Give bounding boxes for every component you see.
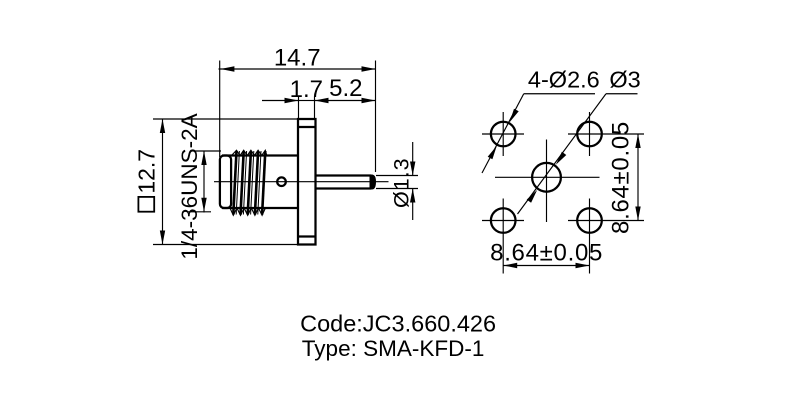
svg-text:14.7: 14.7 (274, 45, 321, 72)
svg-text:Type: SMA-KFD-1: Type: SMA-KFD-1 (302, 336, 485, 361)
svg-text:5.2: 5.2 (329, 75, 362, 102)
top-left mounting hole (482, 112, 524, 156)
dimension 14.7 (219, 45, 376, 173)
bottom-left mounting hole (482, 199, 524, 274)
thread crest zigzag top (232, 150, 267, 155)
bottom-right mounting hole (568, 199, 644, 274)
connector front face (220, 156, 231, 209)
thread flank stripes (233, 151, 265, 215)
dimension 8.64 right (607, 121, 640, 234)
leader dia3 (518, 67, 641, 215)
svg-text:12.7: 12.7 (134, 149, 160, 194)
svg-text:Ø3: Ø3 (609, 67, 640, 93)
svg-text:Code:JC3.660.426: Code:JC3.660.426 (300, 310, 496, 336)
flange top step (298, 126, 316, 128)
thread crest zigzag bottom (230, 208, 265, 215)
pin tip (370, 175, 377, 190)
center hole (495, 140, 600, 223)
flange (298, 119, 316, 245)
svg-text:1.7: 1.7 (290, 76, 323, 103)
svg-text:1/4-36UNS-2A: 1/4-36UNS-2A (177, 113, 202, 259)
svg-text:Ø1.3: Ø1.3 (390, 157, 414, 208)
leader 4-dia2.6 (482, 67, 600, 174)
top-right mounting hole (568, 112, 644, 156)
dimension square 12.7 (134, 119, 299, 245)
pin diameter dimension 1.3 (376, 142, 418, 220)
svg-text:4-Ø2.6: 4-Ø2.6 (528, 67, 600, 93)
flange bottom step (298, 235, 316, 237)
pin hole (277, 177, 286, 186)
body outline bottom (222, 207, 298, 209)
dimension 1.7 (262, 76, 323, 119)
pin bottom (316, 187, 372, 189)
thread OD dimension 1/4-36UNS-2A (177, 113, 221, 259)
dimension 5.2 (315, 75, 376, 103)
pin top (316, 174, 372, 176)
svg-text:8.64±0.05: 8.64±0.05 (607, 121, 634, 234)
svg-text:8.64±0.05: 8.64±0.05 (490, 239, 603, 266)
dimension 8.64 bottom (490, 239, 603, 268)
centerline of connector axis (214, 181, 389, 183)
body outline top (222, 154, 298, 156)
